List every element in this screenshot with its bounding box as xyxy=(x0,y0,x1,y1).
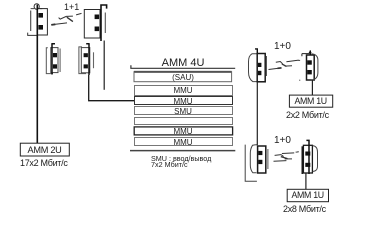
radio terminal C (middle-left) xyxy=(46,44,60,75)
outer bracket H xyxy=(313,146,318,172)
radio box F xyxy=(307,55,315,80)
caption 2x2 xyxy=(286,110,329,120)
text AMM 1U upper xyxy=(289,96,332,106)
text AMM 2U xyxy=(20,145,69,155)
AMM 4U shelf top thick line xyxy=(134,71,232,73)
radio-hop zigzag 1 (A to B) xyxy=(51,13,81,25)
slot 4 SMU box xyxy=(135,107,233,115)
feeder wire H to AMM 1U xyxy=(305,173,307,190)
slot 6 MMU box xyxy=(134,127,232,135)
slot 5 empty box xyxy=(135,118,233,125)
mast H with top hook xyxy=(306,140,309,174)
radio terminal A (top-left, 1+1 site) xyxy=(28,4,48,36)
radio-hop zigzag 2 (E to F, 1+0) xyxy=(269,60,299,69)
AMM 1U box (lower right) xyxy=(287,189,328,201)
caption SMU line 2 xyxy=(151,160,188,169)
feeder stub wire from B xyxy=(103,41,105,90)
feeder wire A to AMM 2U xyxy=(36,5,38,144)
caption SMU line 1 xyxy=(151,154,211,163)
antenna panel line E xyxy=(266,56,268,76)
text AMM 1U lower xyxy=(287,190,328,200)
radio box H xyxy=(303,145,312,173)
radio terminal H (right lower pair, right side) xyxy=(296,140,318,174)
module squares A xyxy=(38,13,43,18)
antenna panel line D xyxy=(93,52,95,68)
antenna panel line G xyxy=(267,149,269,169)
module squares E xyxy=(258,63,261,67)
module squares G xyxy=(258,151,262,155)
slot text MMU 7 xyxy=(134,138,232,147)
mount tick A xyxy=(28,33,37,36)
radio box G xyxy=(258,146,266,173)
label 1+0 upper xyxy=(274,41,291,52)
outer bracket line C xyxy=(46,48,53,74)
radio terminal B (top, 1+1 site far end) xyxy=(84,5,106,41)
mast C with top hook xyxy=(51,44,55,75)
slot text MMU 6 xyxy=(134,127,232,136)
module squares B xyxy=(95,15,100,20)
radio box E xyxy=(257,54,265,82)
feeder wire F to AMM 1U xyxy=(311,80,313,95)
top hook G xyxy=(255,144,257,146)
side ticks A xyxy=(31,8,43,10)
outer bracket E xyxy=(249,54,266,82)
label 1+0 lower xyxy=(274,135,291,146)
slot 2 MMU box xyxy=(135,86,233,96)
mast E top hook xyxy=(255,49,257,53)
caption 2x8 xyxy=(283,204,326,214)
radio box A xyxy=(37,9,47,35)
slot 1 (SAU) box xyxy=(134,72,232,82)
outer bracket F xyxy=(311,54,318,80)
rounded bracket G xyxy=(250,145,256,173)
left tick F xyxy=(298,59,300,61)
radio terminal F (right upper pair, right side) xyxy=(298,50,318,80)
feeder wire E down to G xyxy=(256,82,258,145)
slot 7 MMU box xyxy=(135,138,233,146)
outer bracket G xyxy=(245,145,257,182)
title AMM 4U xyxy=(134,57,232,69)
slot text (SAU) xyxy=(134,73,232,82)
radio terminal D (middle, links to AMM 4U) xyxy=(79,44,94,75)
slot text MMU 2 xyxy=(134,86,232,95)
AMM 2U box xyxy=(20,143,69,156)
AMM 4U shelf header underline xyxy=(131,65,235,68)
antenna panel line A xyxy=(30,11,32,32)
slot text SMU xyxy=(134,107,232,116)
heavy left line H xyxy=(301,146,303,174)
slot text MMU 3 xyxy=(134,97,232,106)
radio box C xyxy=(51,48,58,73)
antenna feed oval A xyxy=(34,4,39,10)
feeder wire D to MMU slot xyxy=(89,75,135,101)
module squares F xyxy=(307,60,312,64)
outer bracket line D xyxy=(79,47,86,74)
radio terminal G (right lower pair, left side) xyxy=(245,145,268,182)
caption 17x2 xyxy=(20,158,68,168)
radio-hop zigzag 3 (G to H, 1+0) xyxy=(274,152,299,161)
mast B with top hook xyxy=(101,5,107,41)
mast F with hook and arrow xyxy=(309,51,311,56)
module squares D xyxy=(84,53,88,57)
radio terminal E (right upper pair, left side) xyxy=(249,49,267,82)
AMM 1U box (upper right) xyxy=(289,95,332,107)
antenna panel line C xyxy=(59,49,61,73)
label 1+1 xyxy=(64,2,79,12)
slot 3 MMU box xyxy=(135,97,233,105)
module squares C xyxy=(53,53,57,57)
antenna panel line B xyxy=(104,13,106,34)
shelf bottom line xyxy=(130,150,235,152)
left tick H xyxy=(296,151,298,153)
radio box B xyxy=(84,10,100,39)
module squares H xyxy=(305,152,310,156)
mast D with top hook xyxy=(86,44,89,75)
radio box D xyxy=(81,48,90,73)
